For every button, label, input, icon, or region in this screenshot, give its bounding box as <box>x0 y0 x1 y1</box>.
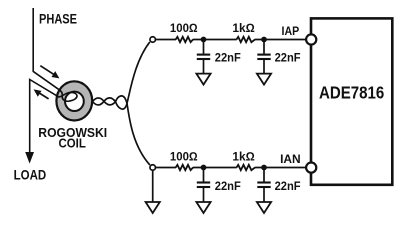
capacitor C bot1 lower lead <box>203 188 205 202</box>
svg-text:LOAD: LOAD <box>14 167 47 182</box>
top wire resistor to junction <box>193 39 237 41</box>
pin circle IAP <box>306 34 316 44</box>
capacitor C top1 lead <box>203 40 205 54</box>
bottom wire resistor to junction <box>193 167 237 169</box>
svg-text:1kΩ: 1kΩ <box>232 21 254 35</box>
svg-text:IAP: IAP <box>282 24 300 38</box>
capacitor C top2 plates <box>257 54 270 56</box>
svg-text:22nF: 22nF <box>275 179 301 193</box>
ground below bottom node <box>146 202 160 213</box>
bottom wire node to resistor <box>155 167 176 169</box>
capacitor C top1 plates <box>197 54 210 56</box>
resistor 1k top zigzag <box>237 37 256 42</box>
ground top1 <box>196 74 210 85</box>
top wire node to resistor <box>155 39 176 41</box>
svg-text:IAN: IAN <box>280 152 301 166</box>
capacitor C top2 lead <box>263 40 265 54</box>
capacitor C bot2 lower lead <box>263 188 265 202</box>
capacitor C top1 lower lead <box>203 60 205 74</box>
capacitor C bot1 lead <box>203 168 205 182</box>
ground bot1 <box>196 202 210 213</box>
node circle top <box>150 37 156 43</box>
svg-text:1kΩ: 1kΩ <box>232 149 254 163</box>
junction dot top 2 <box>261 37 267 43</box>
svg-text:100Ω: 100Ω <box>170 21 198 35</box>
node circle bottom <box>150 165 156 171</box>
svg-text:PHASE: PHASE <box>39 12 77 27</box>
rogowski coil torus <box>56 81 92 120</box>
ground bot2 <box>257 202 271 213</box>
svg-text:COIL: COIL <box>59 137 87 151</box>
wire PHASE conductor with pigtail loop through coil and LOAD return <box>30 8 77 153</box>
capacitor C bot1 plates <box>197 181 210 183</box>
pin circle IAN <box>306 163 316 173</box>
junction dot bottom 1 <box>201 165 207 171</box>
ground lead below bottom node <box>152 171 154 203</box>
capacitor C top2 lower lead <box>263 60 265 74</box>
top wire to IAP pin <box>255 39 307 41</box>
svg-text:ADE7816: ADE7816 <box>319 82 384 102</box>
arrow current direction in (down-right) <box>40 66 59 79</box>
LOAD arrowhead <box>25 152 34 164</box>
junction dot top 1 <box>201 37 207 43</box>
resistor 1k bottom zigzag <box>237 165 256 170</box>
svg-text:100Ω: 100Ω <box>170 149 198 163</box>
twisted pair wire A (to bottom node) <box>93 96 150 165</box>
arrow current direction out (up-left) <box>34 89 49 99</box>
coil inner hole <box>65 92 84 111</box>
IC ADE7816 box <box>311 18 392 184</box>
junction dot bottom 2 <box>261 165 267 171</box>
twisted pair wire B (to top node) <box>93 42 150 109</box>
capacitor C bot2 lead <box>263 168 265 182</box>
svg-text:22nF: 22nF <box>275 51 301 65</box>
svg-text:22nF: 22nF <box>215 179 241 193</box>
capacitor C bot2 plates <box>257 181 270 183</box>
resistor 100ohm top zigzag <box>176 37 193 42</box>
resistor 100ohm bottom zigzag <box>176 165 193 170</box>
bottom wire to IAN pin <box>255 167 307 169</box>
svg-text:22nF: 22nF <box>215 51 241 65</box>
ground top2 <box>257 74 271 85</box>
